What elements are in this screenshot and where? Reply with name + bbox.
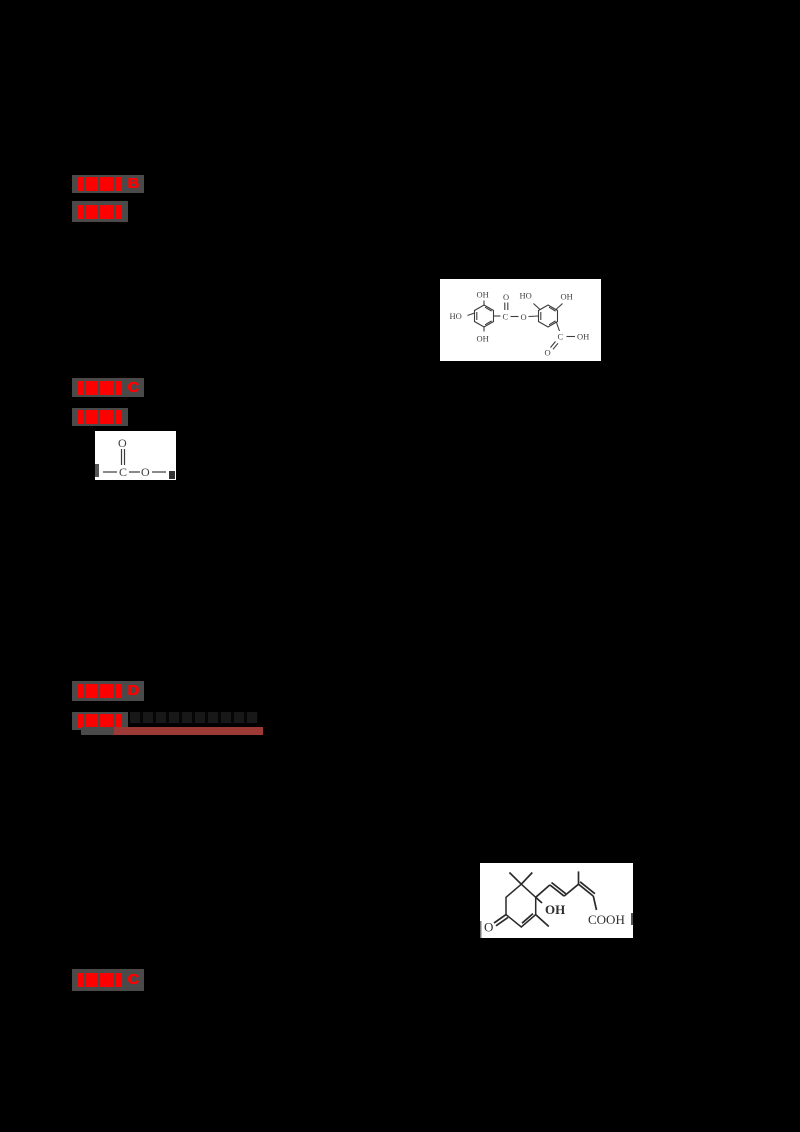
svg-text:OH: OH [577, 332, 589, 342]
right bond [152, 471, 166, 473]
svg-text:OH: OH [477, 334, 489, 344]
ketone C=O double bond [494, 915, 506, 923]
svg-text:C: C [503, 312, 509, 322]
=CH-C single [564, 884, 578, 896]
C-O bond [129, 471, 140, 473]
svg-text:O: O [118, 436, 127, 450]
svg-text:O: O [484, 920, 493, 935]
svg-text:COOH: COOH [588, 912, 625, 927]
C=CH double bond [579, 884, 594, 896]
svg-text:OH: OH [545, 902, 565, 917]
benzene ring A [475, 305, 494, 327]
C-O ester bond [511, 316, 519, 318]
crop remnants at panel edges [95, 464, 99, 477]
benzene ring B [539, 305, 558, 327]
dark red highlight bar [114, 727, 263, 735]
structure image 1: digallic acid (white panel) [440, 279, 601, 361]
answer label 1: 【答案】B [72, 175, 144, 193]
bond ring A to carbonyl C [494, 315, 501, 317]
C=O double bond of ester [504, 303, 506, 311]
bond ring B to carboxyl C [557, 323, 560, 332]
bond ring B to HO top-left [534, 304, 541, 310]
methyl up [578, 871, 580, 884]
answer label 2: 【答案】C [72, 378, 144, 397]
CH-COOH bond [593, 896, 596, 910]
ring internal double bond (bottom-right edge) [522, 914, 533, 924]
gem-dimethyl bonds [509, 873, 521, 885]
svg-text:O: O [141, 465, 150, 479]
faint dark text line after analysis label 3 [130, 712, 258, 723]
bond ring A to top OH [483, 301, 485, 306]
analysis label 3: 【解析】 [72, 712, 128, 730]
bond ring A to bottom OH [483, 327, 485, 332]
cyclohexenone ring [506, 884, 536, 927]
analysis label 2: 【解析】 [72, 408, 128, 426]
structure image 3: abscisic acid (white panel) [480, 863, 633, 938]
O to ring B bond [529, 315, 539, 318]
crop remnants at panel edges [480, 921, 482, 938]
bond to OH [536, 897, 542, 903]
svg-text:O: O [521, 312, 527, 322]
svg-text:OH: OH [477, 290, 489, 300]
svg-text:OH: OH [561, 292, 573, 302]
carboxyl C=O diagonal double bond [551, 342, 556, 348]
CH=CH double bond [550, 885, 564, 896]
bond ring B to OH top-right [556, 304, 563, 310]
analysis label 1: 【解析】 [72, 201, 128, 222]
carboxyl C-OH bond [567, 336, 576, 338]
left bond [103, 471, 117, 473]
side chain CH= [536, 885, 550, 897]
structure image 2: ester group -C(=O)-O- (white panel) [95, 431, 176, 480]
svg-text:HO: HO [450, 311, 462, 321]
answer label 4: 【答案】C [72, 969, 144, 991]
svg-text:HO: HO [520, 291, 532, 301]
answer label 3: 【答案】D [72, 681, 144, 701]
methyl on ring (lower right) [536, 915, 549, 927]
C=O double bond vertical [121, 449, 123, 465]
svg-text:C: C [558, 332, 564, 342]
bond ring A to HO left [468, 313, 475, 316]
svg-text:C: C [119, 465, 127, 479]
svg-text:O: O [503, 292, 509, 302]
gray underline segment below analysis 3 [81, 727, 114, 735]
svg-text:O: O [545, 348, 551, 358]
